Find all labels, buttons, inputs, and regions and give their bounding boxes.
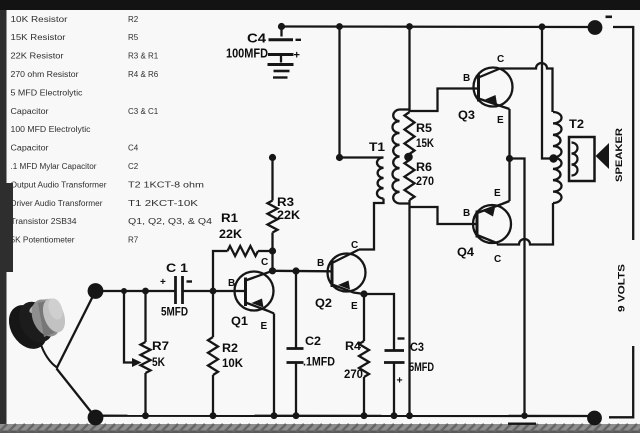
svg-text:5K: 5K <box>152 355 165 369</box>
svg-text:5MFD: 5MFD <box>161 305 188 319</box>
battery lead bracket top <box>613 27 633 240</box>
svg-text:R3: R3 <box>277 195 294 209</box>
transistor Q3 <box>474 68 513 110</box>
node top rail at bias line <box>406 23 413 30</box>
wire top rail to T2 center tap <box>542 27 553 159</box>
svg-text:22K Resistor: 22K Resistor <box>11 52 64 61</box>
node rail Q1 emitter <box>271 412 278 419</box>
svg-text:10K Resistor: 10K Resistor <box>11 15 68 24</box>
wire R4 top <box>363 294 365 341</box>
node rail R4 <box>361 412 368 419</box>
svg-text:Capacitor: Capacitor <box>11 144 49 153</box>
svg-text:C: C <box>494 254 501 265</box>
mic terminal node top <box>88 283 104 299</box>
svg-text:R5: R5 <box>416 121 432 135</box>
svg-text:+: + <box>294 50 300 62</box>
svg-text:5 MFD Electrolytic: 5 MFD Electrolytic <box>11 88 83 97</box>
wire C3 bottom <box>393 363 395 416</box>
node Q2 emitter <box>360 290 367 297</box>
wire C2 top <box>295 271 297 349</box>
svg-text:22K: 22K <box>277 208 300 222</box>
wire Q3 Q4 emitter bus <box>508 109 510 201</box>
transformer T2 secondary <box>569 137 595 181</box>
node wiper branch <box>121 288 127 294</box>
node rail R6 <box>406 412 413 419</box>
svg-text:E: E <box>497 115 504 126</box>
svg-text:B: B <box>317 258 324 269</box>
svg-text:C 1: C 1 <box>166 261 188 275</box>
svg-text:B: B <box>228 278 235 289</box>
svg-text:B: B <box>463 208 470 219</box>
wire R3 top <box>271 158 273 201</box>
wire R7 top <box>144 291 146 342</box>
svg-text:R6: R6 <box>416 160 432 174</box>
svg-text:100MFD: 100MFD <box>226 47 268 61</box>
svg-text:10K: 10K <box>222 356 243 370</box>
wire Q2 collector to T1 primary <box>359 199 384 250</box>
svg-text:C: C <box>261 257 268 268</box>
node top rail at T2 feed <box>539 23 546 30</box>
svg-text:Transistor 2SB34: Transistor 2SB34 <box>11 217 78 226</box>
transformer T1 secondary <box>392 110 399 204</box>
capacitor C4 100MFD <box>268 27 294 63</box>
svg-text:R4: R4 <box>345 339 361 353</box>
transistor Q1 <box>235 271 275 314</box>
wire Q1 collector to Q2 base <box>273 270 332 273</box>
node emitter bus <box>506 155 513 162</box>
svg-text:R2: R2 <box>128 15 139 24</box>
speaker cone <box>596 143 610 169</box>
ground under C4 <box>268 65 294 78</box>
label Q1 pins <box>228 257 268 332</box>
label Q2 pins <box>317 240 358 312</box>
node rail R2 <box>210 412 217 419</box>
wire Q1 emitter to rail <box>273 314 275 416</box>
svg-text:100 MFD Electrolytic: 100 MFD Electrolytic <box>11 125 91 134</box>
svg-text:Q3: Q3 <box>458 108 475 122</box>
transistor Q4 <box>473 201 511 244</box>
ground tick below rail <box>508 423 536 425</box>
node R1 R3 junction <box>269 247 276 254</box>
node Q1 collector <box>269 267 276 274</box>
resistor R3 22K <box>268 201 278 233</box>
node top rail at T1 feed <box>336 23 343 30</box>
wire R3 bottom <box>271 233 273 252</box>
svg-text:E: E <box>351 301 358 312</box>
svg-text:T2 1KCT-8 ohm: T2 1KCT-8 ohm <box>128 180 204 189</box>
node T2 center tap <box>549 154 557 162</box>
resistor R1 22K <box>228 246 259 256</box>
svg-text:C3 & C1: C3 & C1 <box>128 107 159 116</box>
svg-text:T1 2KCT-10K: T1 2KCT-10K <box>128 199 199 208</box>
svg-text:R1: R1 <box>221 211 238 225</box>
svg-text:R4 & R6: R4 & R6 <box>128 70 159 79</box>
svg-text:C4: C4 <box>128 144 139 153</box>
potentiometer R7 5K <box>141 342 151 373</box>
wire C2 bottom <box>295 363 297 416</box>
mic cord <box>40 342 57 368</box>
wire T1 secondary top stub <box>400 108 410 110</box>
wire bottom ground rail <box>96 415 595 418</box>
wire R1 right leg <box>258 250 273 252</box>
capacitor C3 5MFD <box>384 351 405 363</box>
svg-text:B: B <box>463 73 470 84</box>
svg-text:SPEAKER: SPEAKER <box>614 127 624 182</box>
wire node to Q1 collector <box>271 251 273 271</box>
node rail output ground <box>521 413 527 419</box>
svg-text:.1MFD: .1MFD <box>303 357 335 369</box>
node rail C2 <box>293 412 300 419</box>
svg-text:Q2: Q2 <box>315 296 332 310</box>
svg-text:270: 270 <box>416 174 434 188</box>
svg-text:C3: C3 <box>410 340 424 354</box>
wire Q2 emitter to C3 <box>364 294 394 351</box>
svg-text:15K Resistor: 15K Resistor <box>11 33 66 42</box>
svg-text:R7: R7 <box>152 339 169 353</box>
svg-text:Capacitor: Capacitor <box>11 107 49 116</box>
node R2 top <box>210 288 217 295</box>
svg-text:15K: 15K <box>416 136 434 150</box>
svg-text:22K: 22K <box>219 227 242 241</box>
svg-text:T2: T2 <box>569 117 584 131</box>
wire R5 to center tap <box>408 154 410 160</box>
wire T1 secondary bottom stub <box>400 202 410 204</box>
label Q4 pins <box>463 188 501 265</box>
wire T1 to Q4 base <box>410 207 478 224</box>
battery positive terminal dot <box>587 411 602 426</box>
wire mic lower lead <box>57 369 96 418</box>
capacitor C2 .1MFD <box>287 349 304 363</box>
wire R7 bottom <box>144 373 146 416</box>
wire Q3 collector to T2 primary top <box>500 63 553 112</box>
microphone (earphone element) <box>1 295 69 356</box>
svg-text:9 VOLTS: 9 VOLTS <box>617 264 627 312</box>
svg-text:C2: C2 <box>305 334 321 348</box>
node C2 branch <box>292 267 299 274</box>
wire R2 top <box>212 291 214 337</box>
wire mic upper lead <box>57 291 96 369</box>
resistor R5 15K <box>405 112 415 154</box>
wire R2 bottom <box>212 375 214 416</box>
wire top rail to T1 primary <box>340 27 384 158</box>
node R7 top <box>142 288 149 295</box>
svg-text:R5: R5 <box>128 33 139 42</box>
transistor Q2 <box>328 250 366 295</box>
svg-text:E: E <box>261 321 268 332</box>
wire R4 bottom <box>363 377 365 416</box>
svg-text:Output Audio Transformer: Output Audio Transformer <box>11 180 107 189</box>
wire R6 bottom to rail <box>408 200 410 416</box>
battery negative terminal dot <box>588 20 603 35</box>
label minus battery <box>606 15 613 18</box>
wire mic to C1 <box>96 290 175 292</box>
svg-text:C: C <box>497 54 504 65</box>
resistor R6 270 <box>405 160 415 200</box>
svg-text:R3 & R1: R3 & R1 <box>128 52 159 61</box>
svg-text:C2: C2 <box>128 162 139 171</box>
svg-text:5K Potentiometer: 5K Potentiometer <box>11 236 75 245</box>
svg-text:T1: T1 <box>369 140 385 154</box>
wire top negative supply rail <box>282 25 596 28</box>
svg-text:R2: R2 <box>222 341 238 355</box>
wire Q4 collector to T2 primary bottom <box>498 203 553 245</box>
wire R1 left leg <box>213 251 228 291</box>
resistor R4 270 <box>359 341 369 377</box>
node rail C3 <box>391 412 398 419</box>
label Q3 pins <box>463 54 504 126</box>
svg-text:E: E <box>494 188 501 199</box>
svg-text:Driver Audio Transformer: Driver Audio Transformer <box>11 199 103 208</box>
svg-text:.1 MFD Mylar Capacitor: .1 MFD Mylar Capacitor <box>11 162 97 171</box>
mic terminal node bottom <box>88 410 104 426</box>
transformer T2 primary <box>553 112 562 203</box>
node top rail at C4 <box>278 23 285 30</box>
battery lead bracket bottom <box>609 346 633 417</box>
capacitor C1 5MFD <box>176 276 183 304</box>
transformer T1 primary <box>377 158 384 199</box>
node T1 primary feed <box>336 154 343 161</box>
node T1 center tap <box>404 153 413 162</box>
svg-text:Q1, Q2, Q3, & Q4: Q1, Q2, Q3, & Q4 <box>128 217 213 226</box>
svg-text:270: 270 <box>344 367 363 381</box>
svg-text:C4: C4 <box>247 32 266 46</box>
parts list <box>11 15 213 245</box>
wire top rail bias line <box>408 27 410 113</box>
wire emitter bus to ground <box>510 159 525 416</box>
node rail R7 <box>142 412 149 419</box>
svg-text:Q1: Q1 <box>231 314 248 328</box>
svg-text:270 ohm Resistor: 270 ohm Resistor <box>11 70 79 79</box>
svg-text:Q4: Q4 <box>457 245 474 259</box>
label C3 minus <box>398 337 405 339</box>
wire T1 to Q3 base <box>410 89 479 112</box>
svg-text:5MFD: 5MFD <box>409 360 434 374</box>
svg-text:+: + <box>397 375 403 387</box>
wire C1 to Q1 base <box>183 290 246 292</box>
wire pot wiper <box>124 291 134 363</box>
node R3 top <box>269 154 276 161</box>
resistor R2 10K <box>208 337 218 375</box>
wiper arrowhead <box>132 358 142 367</box>
svg-text:+: + <box>160 277 166 288</box>
svg-text:R7: R7 <box>128 236 139 245</box>
svg-text:C: C <box>351 240 358 251</box>
